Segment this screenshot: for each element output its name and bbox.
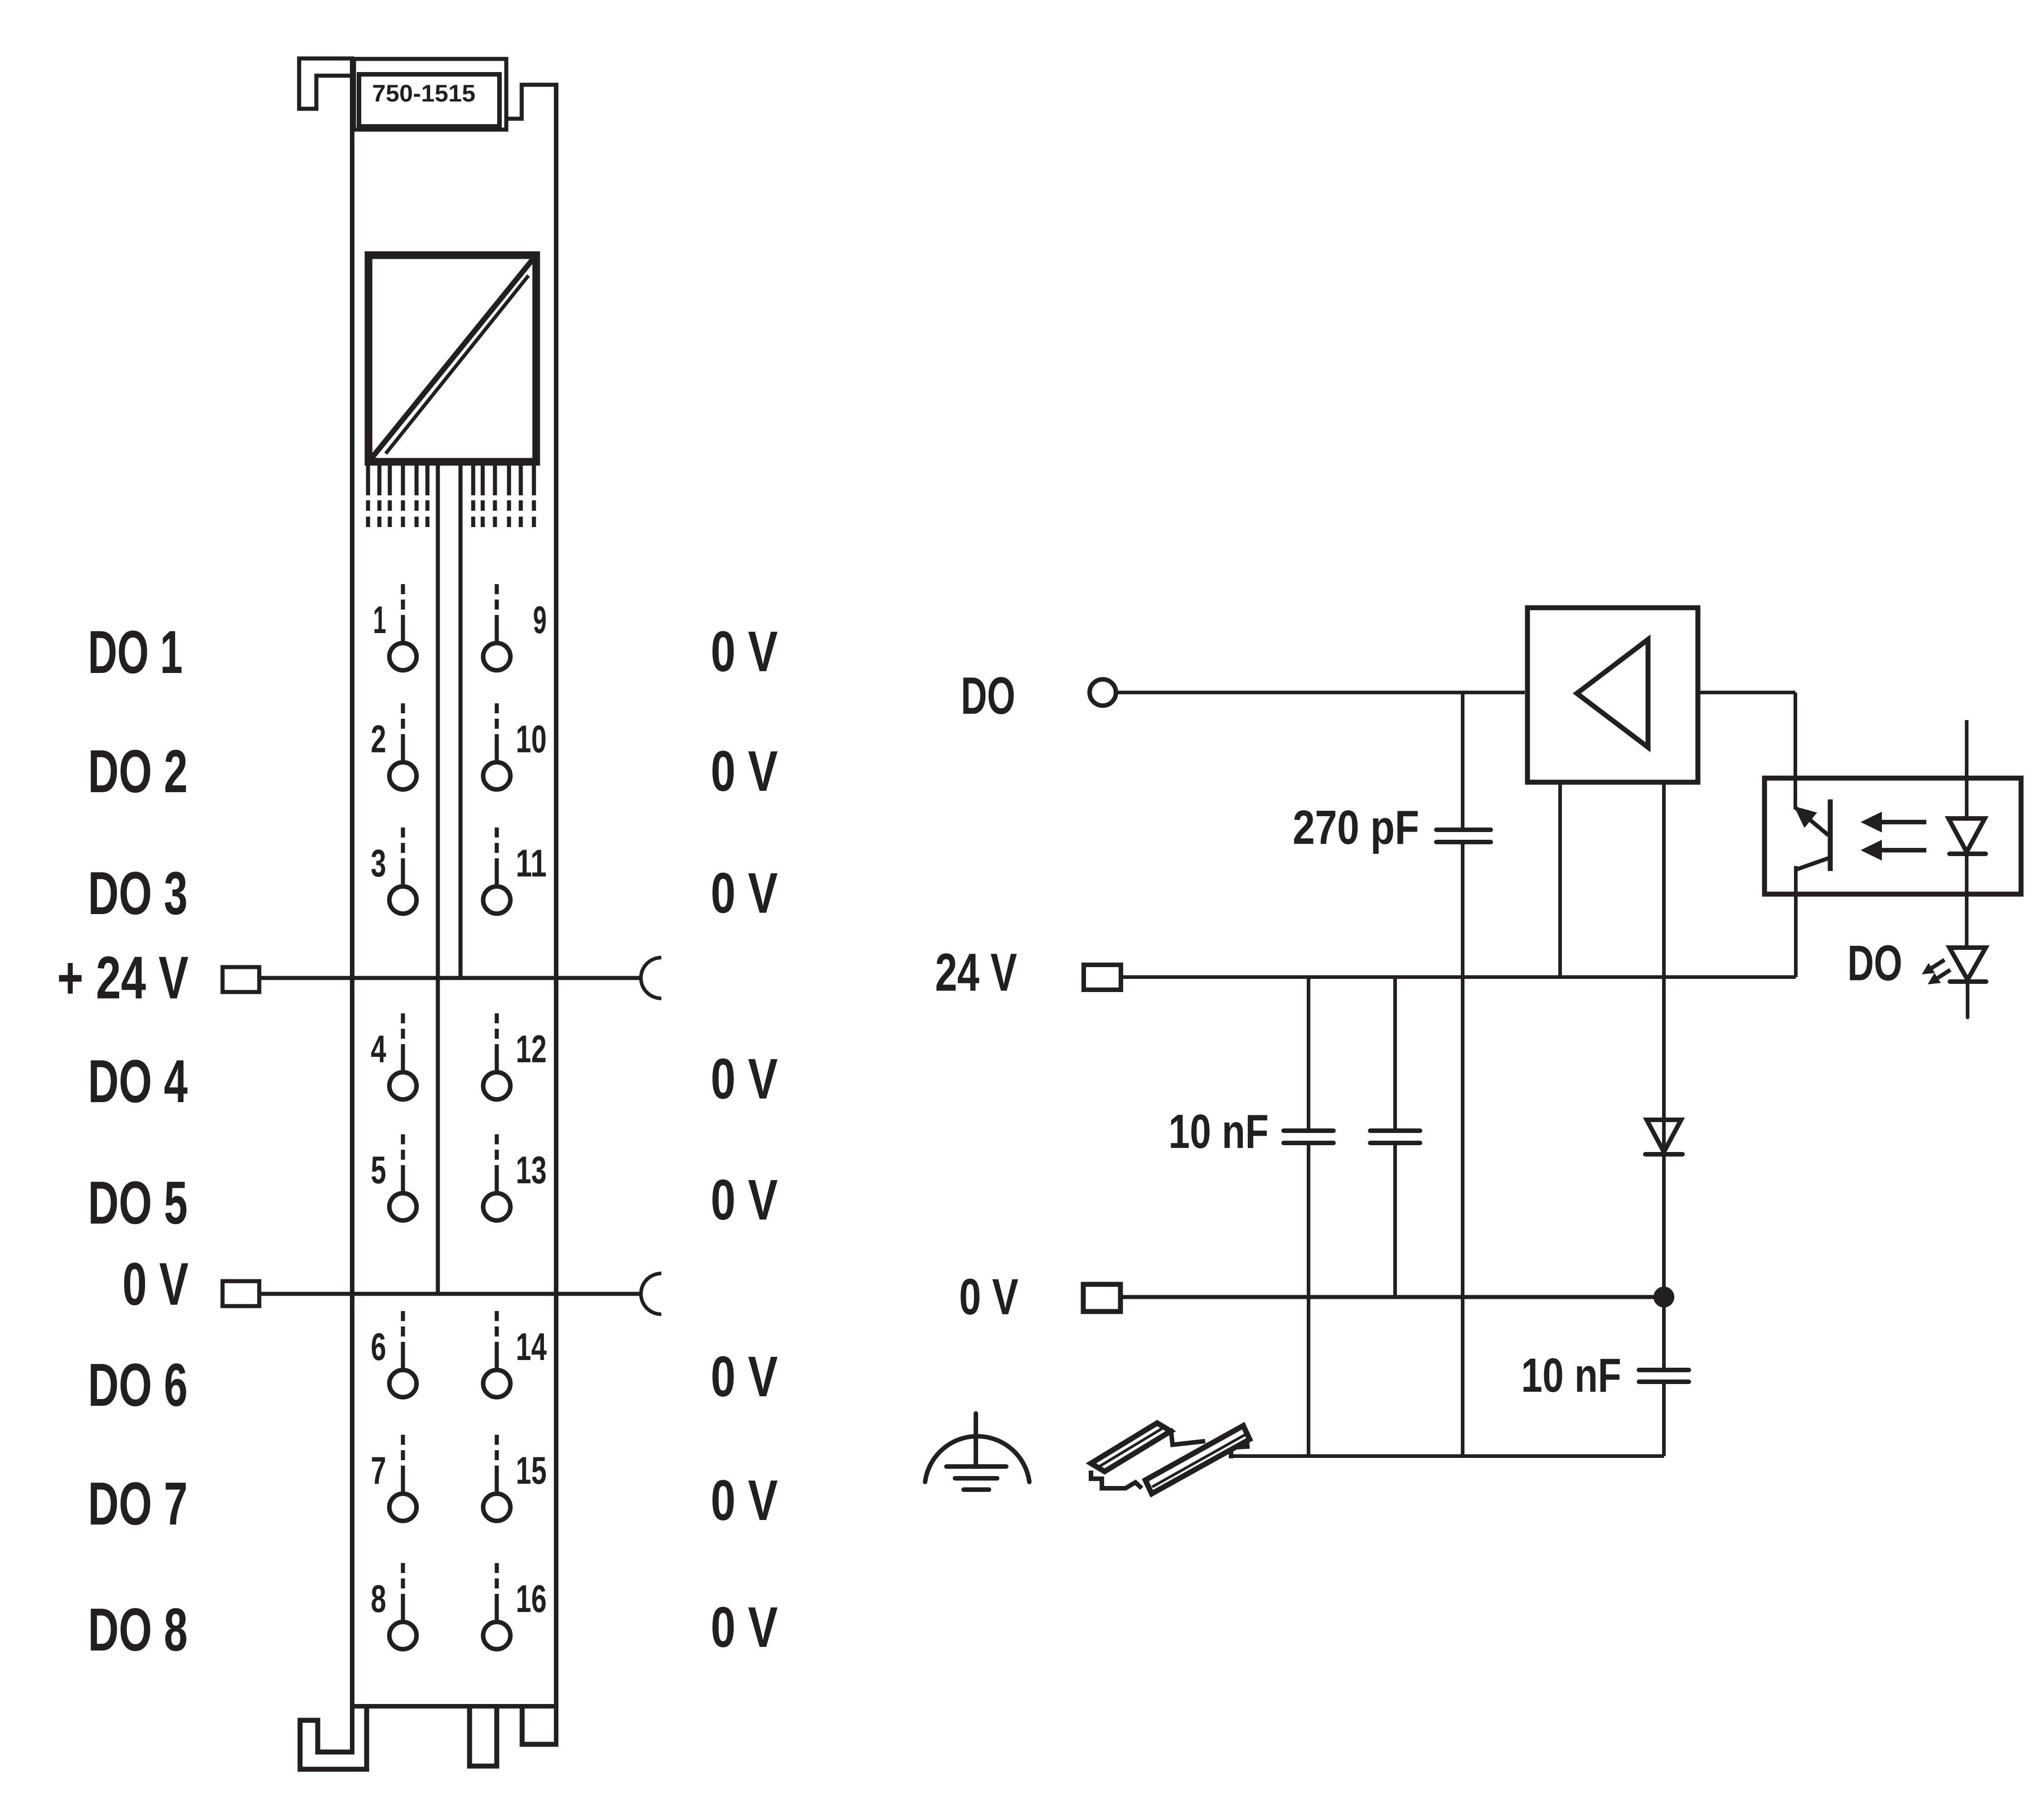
svg-text:0 V: 0 V	[711, 861, 778, 925]
svg-text:0 V: 0 V	[711, 1047, 778, 1111]
svg-text:2: 2	[371, 718, 386, 761]
svg-text:0 V: 0 V	[711, 739, 778, 803]
svg-text:DO 1: DO 1	[88, 619, 183, 686]
svg-text:6: 6	[371, 1326, 386, 1369]
svg-text:4: 4	[371, 1028, 386, 1071]
svg-text:12: 12	[516, 1028, 547, 1071]
svg-text:13: 13	[516, 1149, 547, 1192]
svg-text:11: 11	[516, 842, 547, 885]
svg-text:DO: DO	[961, 666, 1015, 725]
svg-text:0 V: 0 V	[711, 1345, 778, 1409]
svg-text:DO: DO	[1847, 935, 1902, 991]
svg-text:8: 8	[371, 1578, 386, 1621]
svg-text:3: 3	[371, 842, 386, 885]
svg-text:10 nF: 10 nF	[1521, 1349, 1621, 1402]
svg-text:DO 3: DO 3	[88, 860, 188, 927]
svg-text:0 V: 0 V	[711, 1595, 778, 1659]
svg-text:DO 7: DO 7	[88, 1470, 188, 1538]
svg-text:DO 4: DO 4	[88, 1048, 188, 1115]
svg-text:750-1515: 750-1515	[372, 80, 475, 107]
svg-text:5: 5	[371, 1149, 386, 1192]
svg-text:0 V: 0 V	[711, 620, 778, 683]
svg-text:DO 8: DO 8	[88, 1596, 188, 1664]
svg-text:7: 7	[371, 1449, 386, 1492]
svg-text:0 V: 0 V	[711, 1468, 778, 1532]
svg-text:10 nF: 10 nF	[1168, 1105, 1269, 1158]
svg-text:1: 1	[373, 599, 386, 642]
svg-text:0 V: 0 V	[959, 1268, 1018, 1325]
svg-text:DO 5: DO 5	[88, 1169, 188, 1237]
svg-text:10: 10	[516, 718, 547, 761]
svg-text:+ 24 V: + 24 V	[57, 944, 189, 1012]
svg-text:24 V: 24 V	[935, 943, 1017, 1002]
svg-text:15: 15	[516, 1449, 547, 1492]
svg-text:14: 14	[516, 1326, 547, 1369]
svg-text:0 V: 0 V	[711, 1168, 778, 1232]
svg-text:DO 6: DO 6	[88, 1351, 188, 1419]
svg-text:0 V: 0 V	[122, 1251, 189, 1318]
svg-text:16: 16	[516, 1578, 547, 1621]
svg-text:9: 9	[533, 599, 547, 642]
svg-text:DO 2: DO 2	[88, 738, 188, 805]
svg-text:270 pF: 270 pF	[1293, 801, 1419, 854]
